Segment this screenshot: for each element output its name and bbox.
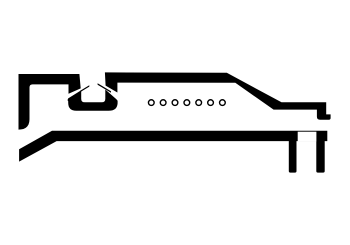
porthole row (7 circles) bbox=[148, 100, 225, 106]
porthole 1 bbox=[148, 100, 154, 106]
deck profile bar with slope and stern hook bbox=[105, 72, 331, 119]
hull band with two rudder legs bbox=[19, 131, 327, 173]
bow bracket (gamma shape) with break-line wedge bbox=[19, 74, 81, 130]
break mark spike (left) bbox=[80, 85, 89, 92]
porthole 6 bbox=[208, 100, 214, 106]
break mark spike (right) bbox=[98, 83, 111, 92]
hull notch cut-out bbox=[298, 132, 317, 142]
deckhouse U channel with slanted arm tops bbox=[68, 90, 118, 111]
porthole 5 bbox=[196, 100, 202, 106]
porthole 3 bbox=[172, 100, 178, 106]
porthole 4 bbox=[184, 100, 190, 106]
porthole 7 bbox=[220, 100, 226, 106]
porthole 2 bbox=[160, 100, 166, 106]
